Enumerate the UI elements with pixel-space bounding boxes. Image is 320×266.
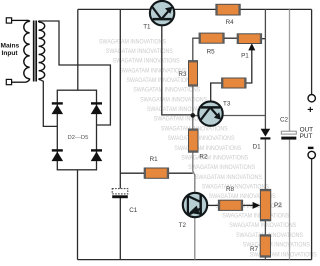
transformer core — [34, 21, 37, 82]
svg-text:SWAGATAM INNOVATIONS: SWAGATAM INNOVATIONS — [106, 48, 173, 55]
svg-text:SWAGATAM INNOVATIONS: SWAGATAM INNOVATIONS — [99, 38, 166, 45]
svg-text:SWAGATAM INNOVATIONS: SWAGATAM INNOVATIONS — [113, 58, 180, 65]
arrow P1 wiper — [248, 43, 255, 50]
svg-text:SWAGATAM INNOVATIONS: SWAGATAM INNOVATIONS — [174, 145, 241, 152]
svg-text:T1: T1 — [143, 23, 151, 30]
bridge rectifier frame D2--D5 — [57, 90, 96, 170]
wire R1 right — [168, 172, 193, 174]
wire D1 to P2 — [264, 139, 266, 189]
wire T3 emitter rail to D1 column — [193, 115, 266, 117]
svg-text:C1: C1 — [129, 207, 138, 214]
junction node — [191, 113, 196, 118]
wire T2 bottom to rail — [194, 217, 196, 259]
svg-text:SWAGATAM INNOVATIONS: SWAGATAM INNOVATIONS — [140, 96, 207, 103]
transformer primary winding — [24, 21, 30, 79]
diode D3 (bridge bottom-left) — [52, 149, 64, 161]
capacitor C1 — [112, 189, 128, 199]
svg-text:+: + — [307, 104, 313, 116]
diode D4 (bridge top-right) — [91, 102, 103, 114]
svg-text:SWAGATAM INNOVATIONS: SWAGATAM INNOVATIONS — [202, 184, 269, 191]
svg-text:R2: R2 — [199, 153, 208, 160]
wire R5 to P1 — [224, 37, 237, 39]
svg-text:SWAGATAM INNOVATIONS: SWAGATAM INNOVATIONS — [188, 164, 255, 171]
label minus — [308, 147, 314, 149]
transformer secondary winding — [39, 22, 45, 79]
wire secondary bottom to bridge AC left — [39, 79, 58, 127]
wire R8h left to T3 — [211, 82, 222, 101]
svg-text:SWAGATAM INNOVATIONS: SWAGATAM INNOVATIONS — [133, 87, 200, 94]
transistor T2 — [183, 193, 207, 217]
resistor R7 — [260, 235, 270, 257]
wire right column rail to D1 — [264, 9, 266, 129]
wire R8 to P2 wiper arrow — [242, 204, 253, 206]
svg-text:SWAGATAM INNOVATIONS: SWAGATAM INNOVATIONS — [181, 155, 248, 162]
wire output + column — [311, 9, 313, 94]
arrow P2 wiper — [253, 202, 261, 209]
svg-text:Mains: Mains — [1, 42, 20, 49]
svg-text:T2: T2 — [179, 222, 187, 229]
wire T2 base to R8 — [207, 204, 218, 206]
wire R2 to T2 top — [193, 152, 195, 194]
svg-text:P2: P2 — [274, 202, 282, 209]
output terminal + — [308, 95, 315, 102]
potentiometer P2 — [260, 189, 270, 220]
svg-text:R7: R7 — [250, 246, 259, 253]
wire top rail right (T1 to output +) — [174, 8, 312, 10]
svg-text:SWAGATAM INNOVATIONS: SWAGATAM INNOVATIONS — [229, 222, 296, 229]
wire R7 to bottom rail — [264, 257, 266, 260]
wire bottom rail — [78, 259, 312, 261]
wire output - column — [311, 159, 313, 260]
wire DC+ column to C1 — [119, 9, 121, 188]
svg-text:R3: R3 — [178, 71, 187, 78]
wire top rail left (bridge+ to T1) — [78, 8, 150, 10]
wire C2 column bottom — [289, 139, 291, 259]
wire R3-R2 column with junction — [192, 86, 194, 129]
svg-text:D1: D1 — [253, 143, 262, 150]
svg-text:SWAGATAM INNOVATIONS: SWAGATAM INNOVATIONS — [195, 174, 262, 181]
wire secondary top to bridge AC right — [39, 21, 110, 125]
svg-text:R4: R4 — [226, 19, 235, 26]
wire P2 to R7 — [264, 221, 266, 235]
watermark SWAGATAM INNOVATIONS — [99, 38, 317, 258]
wire C2 column top — [289, 9, 291, 131]
wire C1 to bottom rail — [119, 198, 121, 260]
resistor R5 — [199, 33, 224, 43]
svg-text:PUT: PUT — [300, 133, 313, 140]
resistor R2 — [189, 129, 199, 152]
svg-text:R8: R8 — [226, 186, 235, 193]
wire T1 base down to junction — [162, 25, 193, 115]
wire bridge- drop — [77, 170, 79, 260]
diode D1 — [260, 129, 270, 140]
svg-text:R1: R1 — [150, 156, 159, 163]
svg-text:SWAGATAM INNOVATIONS: SWAGATAM INNOVATIONS — [222, 213, 289, 220]
svg-text:SWAGATAM INNOVATIONS: SWAGATAM INNOVATIONS — [120, 67, 187, 74]
wire primary top lead — [12, 19, 27, 21]
resistor R1 — [144, 168, 168, 178]
transistor T3 — [198, 101, 222, 125]
svg-text:D2---D5: D2---D5 — [68, 135, 90, 141]
svg-text:P1: P1 — [241, 53, 249, 60]
terminal mains top — [6, 18, 11, 23]
output terminal - — [308, 151, 315, 158]
wire R5 left link to R3 — [193, 38, 200, 61]
transistor T1 — [150, 1, 174, 25]
svg-text:SWAGATAM INNOVATIONS: SWAGATAM INNOVATIONS — [168, 135, 235, 142]
resistor R6 feedback (unlabeled) — [222, 78, 246, 88]
diode D5 (bridge bottom-right) — [91, 149, 103, 161]
terminal mains bottom — [6, 79, 11, 84]
wire P1 right to column — [261, 38, 265, 40]
wire drop bridge+ — [77, 9, 79, 90]
resistor R3 — [189, 61, 198, 87]
svg-text:C2: C2 — [280, 116, 289, 123]
potentiometer P1 — [237, 34, 261, 44]
svg-text:Input: Input — [2, 50, 19, 57]
svg-text:R5: R5 — [207, 48, 216, 55]
wire R1 left — [120, 172, 144, 174]
diode D2 (bridge top-left) — [52, 102, 64, 114]
wire R8h right to P1 wiper — [246, 49, 252, 83]
resistor R8 — [218, 200, 242, 210]
svg-text:T3: T3 — [223, 100, 231, 107]
capacitor C2 — [281, 131, 296, 139]
wire primary bottom lead — [12, 81, 27, 83]
resistor R4 — [216, 4, 240, 15]
